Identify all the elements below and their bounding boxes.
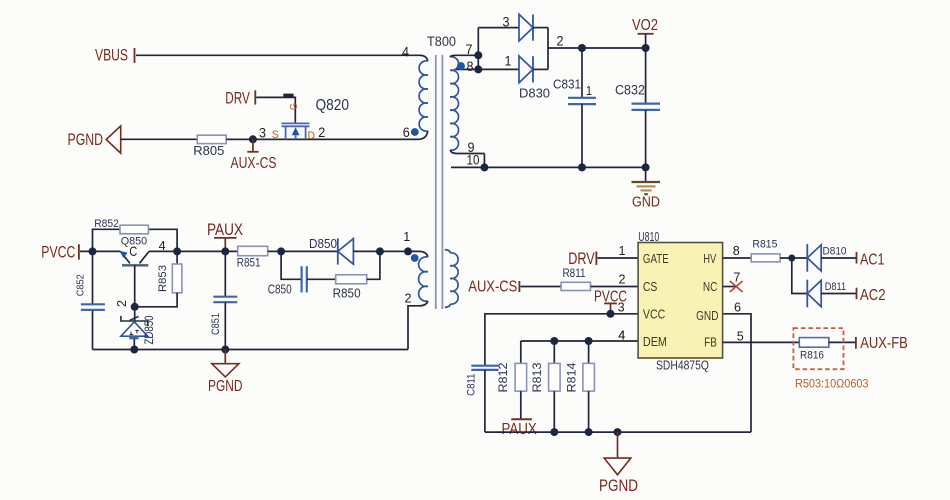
svg-text:C811: C811	[465, 374, 477, 396]
svg-text:R850: R850	[333, 287, 361, 301]
U810 pin CS label	[643, 279, 658, 294]
Q820 gate letter G	[289, 103, 300, 110]
wire snubber left leg	[281, 251, 301, 279]
U810 pin 2 number	[619, 272, 626, 287]
node D810-D811 junction	[788, 255, 795, 262]
U810 pin 7 number	[733, 269, 740, 284]
pin 4 label	[402, 44, 409, 60]
R814 label	[565, 362, 579, 392]
net VO2	[632, 17, 658, 48]
transformer T800 label	[427, 34, 456, 49]
net DRV	[225, 90, 255, 108]
wire R805 to Q820 source	[226, 138, 418, 140]
svg-text:D830: D830	[519, 86, 550, 101]
resistor R816	[799, 338, 829, 348]
svg-text:R852: R852	[94, 218, 119, 230]
resistor R852	[120, 225, 148, 234]
net PVCC mid	[594, 289, 627, 314]
capacitor C851	[213, 251, 237, 349]
wire VCC pin to C811 branch	[485, 314, 638, 366]
svg-text:AUX-CS: AUX-CS	[468, 279, 517, 296]
Q820 pin 2 label	[318, 124, 325, 140]
svg-text:R816: R816	[800, 349, 824, 361]
wire snubber right leg	[367, 251, 380, 279]
node pin 10	[480, 163, 488, 171]
svg-text:C: C	[129, 243, 137, 259]
svg-text:1: 1	[505, 53, 512, 69]
node C831 top	[578, 44, 586, 52]
D830 pin 1 label	[505, 53, 512, 69]
svg-text:R813: R813	[530, 362, 544, 392]
svg-text:3: 3	[259, 124, 266, 140]
svg-text:GND: GND	[632, 195, 660, 211]
Q820 gate corner dash	[283, 94, 293, 97]
svg-text:2: 2	[619, 272, 626, 287]
net AC2	[857, 287, 886, 304]
net AC1	[857, 251, 885, 268]
svg-text:R815: R815	[752, 238, 777, 250]
R816 label	[800, 349, 824, 361]
svg-text:C851: C851	[210, 313, 222, 335]
svg-text:2: 2	[318, 124, 325, 140]
wire C852 branch	[92, 251, 94, 349]
svg-text:R853: R853	[157, 265, 169, 292]
pin 6 label	[403, 124, 410, 140]
wire D830 pin 2 output	[548, 47, 646, 49]
node D830 cathodes join	[547, 28, 549, 70]
Q850 pin 2 label	[114, 300, 129, 307]
node AUX-CS	[249, 135, 257, 143]
svg-text:6: 6	[734, 300, 741, 315]
svg-text:PAUX: PAUX	[502, 421, 538, 438]
svg-text:C831: C831	[553, 77, 581, 92]
node aux pin 1	[404, 247, 412, 255]
U810 pin 1 number	[619, 243, 626, 258]
svg-text:AC2: AC2	[860, 287, 886, 304]
U810 pin NC label	[703, 279, 718, 294]
net AUX-CS mid	[468, 279, 519, 296]
wire R852 branch	[93, 229, 178, 251]
svg-text:7: 7	[733, 269, 740, 284]
node R813 bottom	[550, 428, 558, 436]
svg-text:FB: FB	[704, 335, 717, 350]
D850 label	[309, 237, 337, 251]
net VBUS	[95, 46, 135, 65]
aux pin 2 label	[405, 291, 412, 306]
resistor R815	[751, 254, 780, 262]
svg-text:PGND: PGND	[208, 378, 243, 395]
R805 label	[193, 144, 224, 158]
node Q850 base pin 2	[131, 303, 139, 311]
D811 label	[825, 281, 846, 293]
resistor R811	[561, 282, 590, 290]
wire DRV to GATE pin	[598, 257, 639, 259]
net DRV mid	[568, 250, 596, 268]
wire secondary return (pins 9-10)	[451, 166, 646, 168]
svg-text:S: S	[272, 129, 279, 141]
resistor R851	[238, 246, 268, 255]
transformer T800 core	[436, 55, 443, 309]
U810 pin HV label	[703, 251, 716, 266]
T800 aux winding (pins 1-2)	[408, 251, 428, 349]
U810 NC pin no-connect X	[723, 281, 743, 292]
wire R811 to CS pin	[591, 286, 639, 288]
wire PVCC to Q850 emitter	[80, 250, 120, 252]
resistor R814	[583, 341, 595, 432]
T800 aux-cs winding (floating)	[445, 250, 458, 308]
svg-text:AUX-FB: AUX-FB	[860, 335, 908, 352]
node snubber left	[277, 247, 285, 255]
node PVCC	[89, 247, 97, 255]
node GND	[642, 163, 650, 171]
svg-text:VO2: VO2	[632, 17, 658, 34]
wire D830 pin 3	[478, 27, 519, 29]
power symbol PGND bottom-left	[208, 350, 243, 395]
C831 pin 1 label	[586, 83, 592, 98]
U810 pin 6 number	[734, 300, 741, 315]
R813 label	[530, 362, 544, 392]
Q850 label	[121, 236, 148, 248]
node R814 bottom	[585, 428, 593, 436]
wire AUX-CS to R811	[521, 286, 562, 288]
net PAUX top	[207, 220, 243, 251]
T800 secondary winding (pins 7-10)	[450, 55, 484, 167]
svg-text:AUX-CS: AUX-CS	[231, 155, 277, 172]
diode D850	[338, 238, 419, 264]
R811 label	[563, 266, 586, 280]
node snubber right	[376, 247, 384, 255]
D810 label	[823, 246, 847, 258]
wire R816 to AUX-FB	[829, 341, 855, 343]
svg-text:R851: R851	[237, 256, 261, 270]
svg-text:1: 1	[619, 243, 626, 258]
svg-text:2: 2	[405, 291, 412, 306]
U810 pin DEM label	[643, 334, 667, 349]
C811 label	[465, 374, 477, 396]
diode D830 top half	[519, 14, 548, 41]
node ZD850 bottom	[130, 346, 138, 354]
capacitor C832	[632, 48, 661, 167]
polarity dot pin 8	[457, 62, 465, 70]
R812 label	[496, 362, 510, 392]
svg-text:DRV: DRV	[225, 90, 250, 108]
net PAUX bottom	[502, 419, 538, 438]
svg-text:DRV: DRV	[568, 250, 595, 268]
wire R851 to D850	[268, 250, 338, 252]
op-amp U810 body	[638, 243, 723, 359]
pin 7 label	[466, 42, 473, 57]
svg-text:D810: D810	[823, 246, 847, 258]
U810 label	[638, 229, 659, 244]
svg-text:U810: U810	[638, 229, 659, 244]
U810 pin GATE label	[643, 251, 669, 266]
svg-text:8: 8	[733, 243, 740, 258]
svg-text:R805: R805	[193, 144, 224, 158]
svg-text:D811: D811	[825, 281, 846, 293]
svg-text:SDH4875Q: SDH4875Q	[656, 358, 709, 373]
R815 label	[752, 238, 777, 250]
svg-text:VBUS: VBUS	[95, 46, 128, 65]
resistor R853	[135, 251, 182, 306]
R816 value note R503:10ohm 0603	[795, 378, 869, 390]
svg-text:R812: R812	[496, 362, 510, 392]
svg-text:PGND: PGND	[599, 477, 638, 495]
wire pin4 to R851	[177, 250, 238, 252]
svg-text:R811: R811	[563, 266, 586, 280]
D830 pin 2 label	[557, 33, 564, 49]
pin 9 label	[468, 140, 475, 155]
R851 label	[237, 256, 261, 270]
svg-text:GND: GND	[696, 308, 718, 323]
power symbol PGND top-left	[68, 126, 121, 153]
svg-text:10: 10	[467, 153, 480, 168]
svg-text:4: 4	[402, 44, 409, 60]
D830 pin 3 label	[503, 14, 510, 30]
svg-text:Q820: Q820	[316, 97, 350, 114]
resistor R813	[549, 341, 561, 432]
wire HV pin to R815	[723, 257, 752, 259]
svg-text:C852: C852	[75, 274, 87, 296]
node R813 top	[550, 337, 558, 345]
wire FB pin to R816	[723, 341, 800, 343]
aux pin 1 label	[403, 229, 410, 244]
zener diode ZD850	[121, 307, 148, 350]
U810 pin VCC label	[643, 307, 665, 322]
svg-text:5: 5	[737, 329, 744, 344]
U810 pin GND label	[696, 308, 718, 323]
Q820 drain letter D	[308, 130, 316, 142]
DEM pin 4 label	[618, 328, 625, 343]
Q820 label	[316, 97, 350, 114]
svg-text:G: G	[289, 103, 300, 110]
ZD850 label	[144, 316, 156, 345]
U810 part number SDH4875Q	[656, 358, 709, 373]
transistor Q850	[120, 251, 149, 307]
net AUX-FB	[856, 335, 908, 352]
svg-text:GATE: GATE	[643, 251, 669, 266]
wire ground bus	[485, 431, 751, 433]
node R814 top	[585, 337, 593, 345]
C832 label	[615, 83, 645, 98]
svg-text:D: D	[308, 130, 316, 142]
node C831 bottom	[578, 163, 586, 171]
wire VBUS to T800 pin 4	[136, 55, 428, 61]
svg-text:PAUX: PAUX	[207, 220, 243, 239]
svg-text:T800: T800	[427, 34, 456, 49]
svg-text:R814: R814	[565, 362, 579, 392]
svg-text:2: 2	[114, 300, 129, 307]
svg-text:PVCC: PVCC	[41, 243, 75, 261]
svg-text:R503:10Ω0603: R503:10Ω0603	[795, 378, 869, 390]
svg-text:ZD850: ZD850	[144, 316, 156, 345]
svg-text:3: 3	[618, 300, 625, 315]
C851 label	[210, 313, 222, 335]
svg-text:1: 1	[586, 83, 592, 98]
pin 10 label	[467, 153, 480, 168]
svg-text:AC1: AC1	[860, 251, 885, 268]
node VO2	[642, 44, 650, 52]
net AUX-CS stub	[231, 139, 277, 172]
U810 pin 4 number	[618, 328, 625, 343]
capacitor C852	[81, 304, 105, 310]
resistor R850	[336, 275, 367, 284]
svg-text:7: 7	[466, 42, 473, 57]
wire D830 pin 1	[478, 68, 519, 70]
R850 label	[333, 287, 361, 301]
svg-text:C832: C832	[615, 83, 645, 98]
net PVCC left	[41, 243, 79, 261]
svg-text:C850: C850	[268, 283, 292, 297]
wire bottom return	[93, 349, 409, 351]
Q850 letter C	[129, 243, 137, 259]
node PGND branch	[221, 346, 229, 354]
svg-text:CS: CS	[643, 279, 658, 294]
svg-text:DEM: DEM	[643, 334, 667, 349]
Q850 pin 4 label	[159, 238, 166, 253]
D830 label	[519, 86, 550, 101]
C852 label	[75, 274, 87, 296]
svg-text:2: 2	[557, 33, 564, 49]
C850 label	[268, 283, 292, 297]
transistor Q820 (MOSFET)	[282, 123, 310, 139]
svg-text:1: 1	[403, 229, 410, 244]
R852 label	[94, 218, 119, 230]
svg-text:VCC: VCC	[643, 307, 665, 322]
node PGND bottom branch	[614, 428, 622, 436]
polarity dot pin 6	[411, 128, 419, 136]
node pin 4	[173, 247, 181, 255]
resistor R805	[197, 135, 226, 143]
polarity dot aux pin 1	[411, 254, 419, 262]
wire DRV to Q820 gate	[256, 97, 295, 123]
diode D811	[807, 280, 856, 308]
T800 primary winding (pins 4-6)	[419, 61, 428, 131]
svg-text:D850: D850	[309, 237, 337, 251]
svg-text:4: 4	[618, 328, 625, 343]
U810 pin 5 number	[737, 329, 744, 344]
svg-text:PGND: PGND	[68, 131, 104, 149]
power symbol PGND bottom-right	[599, 432, 638, 495]
svg-text:8: 8	[467, 59, 474, 74]
R816 alternate-value dashed box	[793, 328, 843, 369]
U810 pin FB label	[704, 335, 717, 350]
capacitor C850	[302, 266, 336, 292]
diode D810	[807, 244, 856, 272]
wire DEM pin	[521, 340, 638, 342]
svg-text:NC: NC	[703, 279, 718, 294]
wire to D811	[792, 258, 808, 294]
Q820 pin 3 label	[259, 124, 266, 140]
Q820 source letter S	[272, 129, 279, 141]
ground GND (earth)	[632, 167, 661, 210]
wire Q850 collector to node	[149, 250, 177, 252]
diode D830 bottom half	[519, 56, 548, 83]
C831 label	[553, 77, 581, 92]
svg-text:3: 3	[503, 14, 510, 30]
wire pin 6 to Q820 drain	[226, 131, 428, 139]
wire GND pin to bus	[723, 314, 751, 432]
U810 pin 3 number	[618, 300, 625, 315]
svg-text:HV: HV	[703, 251, 716, 266]
resistor R812	[515, 341, 527, 419]
wire PGND to R805	[121, 138, 198, 140]
wire R815 to diodes	[780, 257, 807, 259]
svg-text:6: 6	[403, 124, 410, 140]
R853 label	[157, 265, 169, 292]
capacitor C811	[471, 366, 498, 432]
U810 pin 8 number	[733, 243, 740, 258]
node PAUX	[221, 247, 229, 255]
pin 8 label	[467, 59, 474, 74]
capacitor C831	[568, 48, 596, 167]
node pins 7-8 join	[474, 28, 482, 74]
node PVCC-VCC	[607, 310, 615, 318]
